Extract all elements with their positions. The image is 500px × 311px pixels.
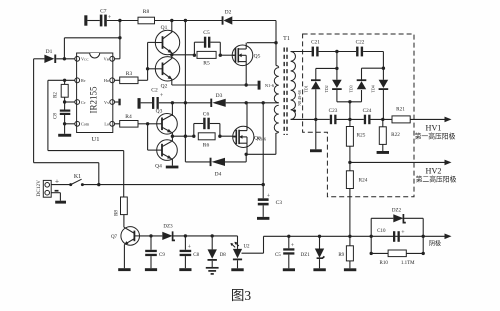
- svg-text:DZ3: DZ3: [163, 225, 173, 230]
- svg-text:Q1: Q1: [161, 25, 168, 31]
- svg-text:图3: 图3: [231, 288, 251, 303]
- svg-text:R8: R8: [143, 9, 150, 15]
- wire R8 to D2: [155, 20, 223, 22]
- wire Q5 drain: [247, 42, 276, 44]
- svg-text:C3: C3: [276, 200, 283, 206]
- node totem1 output: [170, 53, 173, 56]
- wire DZ3 to node: [173, 235, 213, 237]
- svg-text:U2: U2: [243, 245, 250, 250]
- wire left vertical rail: [33, 59, 35, 163]
- wire totem1 out to R5: [172, 54, 195, 56]
- wire D4 to Q6 source: [225, 154, 246, 162]
- wire Q4 emitter down: [171, 159, 173, 166]
- svg-text:IR2155: IR2155: [89, 86, 99, 114]
- svg-text:+: +: [267, 194, 271, 200]
- transistor Q4: [155, 140, 177, 170]
- svg-text:+: +: [188, 245, 192, 251]
- diode D2: [222, 9, 233, 24]
- wire C7 to R8: [107, 20, 138, 22]
- resistor R4: [115, 114, 148, 127]
- resistor R5: [197, 51, 216, 66]
- node DZ1 tap: [318, 235, 321, 238]
- svg-text:VB: VB: [104, 57, 110, 62]
- wire D3 to primary tap: [226, 102, 279, 104]
- svg-text:C2: C2: [151, 88, 158, 94]
- pin CT: [75, 100, 87, 105]
- svg-text:HV2: HV2: [426, 167, 442, 176]
- svg-text:1.1TM: 1.1TM: [401, 261, 415, 266]
- svg-text:VCC: VCC: [81, 57, 89, 62]
- pin Lo: [104, 121, 114, 126]
- wire D2 to T1 corner: [232, 20, 276, 22]
- wire TD4 top: [382, 68, 384, 80]
- node HV2 tap: [348, 161, 351, 164]
- wire Q3 collector up: [171, 103, 173, 116]
- node switch riser: [97, 183, 100, 186]
- resistor R24: [346, 162, 367, 236]
- transistor Q1: [155, 25, 179, 55]
- node D8 tap: [211, 234, 214, 237]
- wire Q5 drain up: [245, 43, 247, 49]
- node Q3 collector tap: [171, 101, 174, 104]
- node tie mid: [348, 100, 351, 103]
- svg-text:+: +: [401, 230, 405, 236]
- node R2 top: [63, 79, 66, 82]
- wire Q1 emitter / Q2 collector join: [171, 53, 173, 58]
- pin Vcc: [75, 56, 90, 61]
- wire C3 column: [262, 103, 264, 199]
- node secondary low / TD1: [314, 118, 317, 121]
- wire bus to C23: [316, 118, 330, 120]
- svg-text:DC12V: DC12V: [36, 180, 42, 197]
- wire feedback loop bottom: [48, 150, 124, 152]
- capacitor C7: [84, 9, 112, 27]
- transistor Q2: [155, 57, 179, 90]
- svg-text:R3: R3: [126, 71, 133, 77]
- svg-text:R9: R9: [338, 253, 344, 258]
- output HV1 arrow: [410, 117, 451, 123]
- zener DZ1: [301, 236, 325, 268]
- wire rail corner to D4: [185, 161, 210, 163]
- svg-text:+: +: [291, 243, 295, 249]
- svg-text:C8: C8: [193, 253, 199, 258]
- ground R22: [377, 151, 389, 154]
- capacitor C3: [258, 194, 282, 217]
- svg-text:HV1: HV1: [426, 124, 442, 133]
- svg-text:阴极: 阴极: [429, 239, 441, 247]
- switch K1: [69, 174, 84, 186]
- node rail/Q1: [170, 19, 173, 22]
- wire Q3 emitter / Q4 collector join: [171, 133, 173, 142]
- output cathode arrow: [445, 234, 452, 240]
- transformer T1 primary upper winding: [274, 43, 278, 103]
- wire Q1/Q2 base column: [146, 42, 155, 80]
- svg-text:C23: C23: [329, 108, 338, 114]
- svg-text:Q7: Q7: [111, 235, 118, 240]
- wire Q6 drain up: [246, 103, 248, 131]
- svg-text:N3-6: N3-6: [257, 137, 267, 142]
- node Q5 source: [245, 83, 248, 86]
- transistor Q7: [111, 227, 140, 246]
- connector DC12V: [36, 180, 51, 197]
- wire corner down to LED: [237, 236, 239, 249]
- wire TD1 jog: [316, 68, 337, 79]
- node C3 branch: [262, 101, 265, 104]
- node Q3/Q4 base: [146, 122, 149, 125]
- svg-text:TD3: TD3: [349, 85, 354, 92]
- svg-text:TD1: TD1: [303, 85, 308, 92]
- ground R9: [344, 268, 356, 271]
- svg-text:C21: C21: [311, 40, 320, 46]
- ground DC return: [55, 201, 66, 204]
- node Com: [63, 122, 66, 125]
- svg-text:C8: C8: [54, 113, 59, 119]
- svg-text:C10: C10: [377, 229, 386, 234]
- capacitor C6: [194, 112, 220, 137]
- resistor R10: [370, 250, 425, 266]
- svg-text:DZ2: DZ2: [392, 209, 402, 214]
- capacitor C23: [329, 108, 338, 124]
- wire TD4 bottom: [382, 89, 384, 119]
- svg-text:T1: T1: [283, 36, 290, 42]
- svg-text:C5: C5: [275, 253, 281, 258]
- wire block rails: [371, 218, 423, 253]
- transformer T1 primary lower winding: [274, 105, 278, 133]
- wire TD1 bottom: [315, 89, 317, 119]
- LED U2: [231, 242, 251, 268]
- op-amp U1 IR2155 body: [77, 53, 113, 143]
- node stage1 top: [335, 50, 338, 53]
- node TD1/TD2 tie: [335, 67, 338, 70]
- node bus right: [381, 118, 384, 121]
- pin VS stub: [115, 99, 121, 106]
- resistor R6: [198, 133, 215, 149]
- svg-text:VS: VS: [104, 100, 109, 105]
- svg-text:第二高压阳极: 第二高压阳极: [416, 175, 457, 184]
- wire Q7 base line: [139, 235, 162, 237]
- node R6 left: [192, 135, 195, 138]
- wire minus terminal to ground: [51, 193, 60, 201]
- resistor R9: [338, 236, 353, 268]
- capacitor C10: [377, 229, 405, 242]
- wire cathode bus: [264, 235, 448, 237]
- transformer T1 secondary winding: [291, 52, 316, 120]
- svg-text:K1: K1: [74, 174, 81, 180]
- svg-text:Q4: Q4: [155, 164, 162, 170]
- transistor Q3: [156, 109, 178, 135]
- capacitor C2: [138, 88, 164, 109]
- svg-text:Ho: Ho: [104, 78, 109, 83]
- svg-text:D3: D3: [216, 93, 223, 99]
- pin RT: [75, 78, 87, 83]
- ground Q4 emitter: [166, 166, 179, 169]
- wire Q5 source down: [245, 62, 247, 85]
- wire primary bottom up: [275, 133, 277, 154]
- svg-text:R10: R10: [380, 261, 389, 266]
- wire Q7 emitter down: [123, 245, 125, 269]
- terminal stub N1-6: [258, 81, 261, 90]
- capacitor C22: [356, 40, 365, 57]
- capacitor C5 (cathode filter): [275, 236, 295, 268]
- svg-text:第一高压阳极: 第一高压阳极: [415, 132, 456, 141]
- svg-text:C24: C24: [363, 108, 372, 114]
- svg-text:R8: R8: [115, 210, 120, 216]
- label minus: [55, 190, 59, 192]
- svg-text:RT: RT: [81, 78, 87, 83]
- capacitor C21: [311, 40, 320, 57]
- wire left rail to switch riser: [34, 163, 99, 185]
- wire K1 to 12V rail: [82, 184, 263, 186]
- wire loop down to R8b: [123, 151, 125, 197]
- svg-text:TD2: TD2: [324, 85, 329, 92]
- svg-text:D2: D2: [225, 9, 232, 15]
- svg-text:R5: R5: [203, 61, 210, 67]
- svg-text:R21: R21: [396, 107, 405, 113]
- wire RT loop vertical: [47, 80, 49, 150]
- node 12V / primary feed: [262, 183, 265, 186]
- svg-text:C6: C6: [203, 112, 210, 118]
- node totem2 output: [171, 135, 174, 138]
- resistor R25: [346, 119, 365, 162]
- wire left rail to D1: [34, 58, 45, 60]
- earth ground D8: [206, 268, 219, 274]
- svg-text:+: +: [160, 93, 164, 99]
- svg-text:R4: R4: [125, 114, 132, 120]
- svg-text:R25: R25: [357, 133, 366, 139]
- ground C5b: [283, 268, 295, 271]
- wire RT pin left: [48, 79, 75, 81]
- wire to Q6 gate: [220, 135, 236, 137]
- diode D8: [208, 236, 227, 268]
- svg-text:D8: D8: [220, 253, 227, 258]
- ground LED: [231, 268, 243, 271]
- svg-text:Q2: Q2: [161, 84, 168, 90]
- wire Com pin: [65, 123, 75, 125]
- wire D1 to Vcc pin: [56, 58, 75, 60]
- capacitor C9: [145, 236, 165, 268]
- wire stage1 drop: [336, 52, 338, 80]
- ground C9: [145, 268, 157, 271]
- svg-text:C5: C5: [203, 30, 210, 36]
- node C8b tap: [184, 234, 187, 237]
- node Vcc/bootstrap: [63, 57, 66, 60]
- wire Q1 collector to rail: [171, 21, 173, 33]
- node R5 right: [219, 54, 222, 57]
- pin VS: [104, 100, 115, 105]
- ground secondary: [310, 149, 322, 152]
- svg-text:U1: U1: [92, 136, 100, 143]
- resistor R21: [392, 107, 410, 123]
- wire R8b to Q7 collector: [123, 215, 125, 228]
- wire secondary ground drop: [315, 119, 317, 149]
- svg-text:N1-6: N1-6: [265, 83, 275, 88]
- voltage multiplier enclosure box: [303, 34, 414, 197]
- svg-text:D1: D1: [46, 49, 53, 55]
- zener DZ3: [162, 225, 175, 241]
- wire C21 to C22: [319, 51, 357, 53]
- svg-text:R24: R24: [359, 178, 368, 184]
- ground Q7 emitter: [118, 268, 130, 271]
- wire node to corner: [212, 235, 237, 237]
- wire Q3/Q4 base column: [147, 124, 149, 150]
- node drive rail crossing: [184, 101, 187, 104]
- svg-text:Q3: Q3: [156, 109, 163, 115]
- node VB/C7 junction: [64, 19, 121, 59]
- node C9 tap: [149, 234, 152, 237]
- capacitor C5: [194, 30, 220, 55]
- node block left: [370, 235, 373, 238]
- zener DZ2: [371, 209, 423, 223]
- capacitor C8 (filter): [180, 236, 200, 268]
- svg-text:C7: C7: [100, 9, 107, 15]
- wire tie drop: [349, 102, 351, 120]
- capacitor C8 (timing): [54, 110, 71, 119]
- wire corner down to Q5 drain node: [275, 21, 277, 43]
- secondary phase dot: [293, 109, 296, 112]
- capacitor C24: [363, 108, 372, 124]
- svg-text:Lo: Lo: [104, 122, 109, 127]
- wire to Q5 gate: [220, 54, 235, 56]
- wire C8 down: [64, 115, 66, 134]
- pin Ho: [104, 78, 115, 83]
- wire source line to primary bottom: [246, 153, 276, 155]
- node R6 right: [218, 135, 221, 138]
- diode TD1: [303, 79, 320, 92]
- wire C2 to D3: [159, 102, 211, 104]
- node drive rail crossing 2: [184, 135, 187, 138]
- svg-text:+: +: [55, 176, 59, 185]
- svg-text:R2: R2: [54, 92, 59, 98]
- wire TD2/TD3 bottoms tie: [337, 90, 362, 102]
- wire lower drive rail: [184, 21, 186, 162]
- resistor R2: [54, 80, 69, 98]
- node mid bus: [348, 118, 351, 121]
- wire C22 right corner: [363, 52, 383, 69]
- wire Q2 emitter to primary stub: [172, 79, 258, 85]
- node Q6 source / primary bottom: [245, 153, 248, 156]
- svg-text:N8 4S-6S: N8 4S-6S: [297, 90, 302, 106]
- resistor R8 (bias): [115, 197, 128, 216]
- svg-text:C22: C22: [356, 40, 365, 46]
- wire Q6 source down: [246, 143, 248, 154]
- svg-text:Q5: Q5: [254, 54, 261, 60]
- resistor R22: [379, 119, 400, 151]
- ground C3: [257, 217, 269, 220]
- node Q5 drain / primary top: [274, 41, 277, 44]
- node stage2 tie: [382, 67, 385, 70]
- node CT: [63, 100, 66, 103]
- svg-text:D4: D4: [215, 172, 222, 178]
- ground C8b: [179, 268, 191, 271]
- transistor Q6 (MOSFET): [233, 126, 261, 147]
- pin VB: [104, 56, 115, 61]
- ground DZ1: [313, 268, 325, 271]
- node block right: [422, 235, 425, 238]
- svg-text:DZ1: DZ1: [301, 253, 311, 258]
- diode D1: [44, 49, 56, 63]
- svg-text:Com: Com: [81, 122, 90, 127]
- svg-text:CT: CT: [81, 100, 87, 105]
- node R5 left: [193, 54, 196, 57]
- svg-text:C9: C9: [159, 253, 165, 258]
- ground (IC common): [58, 134, 71, 137]
- node half-bridge mid: [245, 101, 248, 104]
- node C5b tap: [287, 235, 290, 238]
- svg-text:R6: R6: [203, 143, 210, 149]
- diode TD3: [349, 79, 367, 92]
- svg-text:R22: R22: [391, 132, 400, 138]
- wire LED jog to cathode line: [242, 236, 264, 253]
- output HV2 arrow: [350, 160, 452, 166]
- wire plus terminal to K1: [51, 184, 70, 186]
- resistor R8 (top): [138, 9, 155, 24]
- wire CT pin: [65, 101, 75, 103]
- pin Com: [75, 121, 90, 126]
- svg-text:TD4: TD4: [370, 85, 375, 92]
- node rail/lower-drive: [184, 19, 187, 22]
- diode TD4: [370, 80, 388, 93]
- node R9 tap: [348, 235, 351, 238]
- diode TD2: [324, 80, 342, 93]
- wire totem2 out to R6: [172, 135, 193, 137]
- resistor R3: [115, 71, 148, 84]
- diode D3: [210, 93, 225, 107]
- wire TD3 jog: [362, 68, 384, 80]
- transformer core: [284, 48, 287, 136]
- diode D4: [210, 158, 225, 178]
- wire R2 to C8: [64, 97, 66, 109]
- transistor Q5 (MOSFET): [232, 45, 260, 66]
